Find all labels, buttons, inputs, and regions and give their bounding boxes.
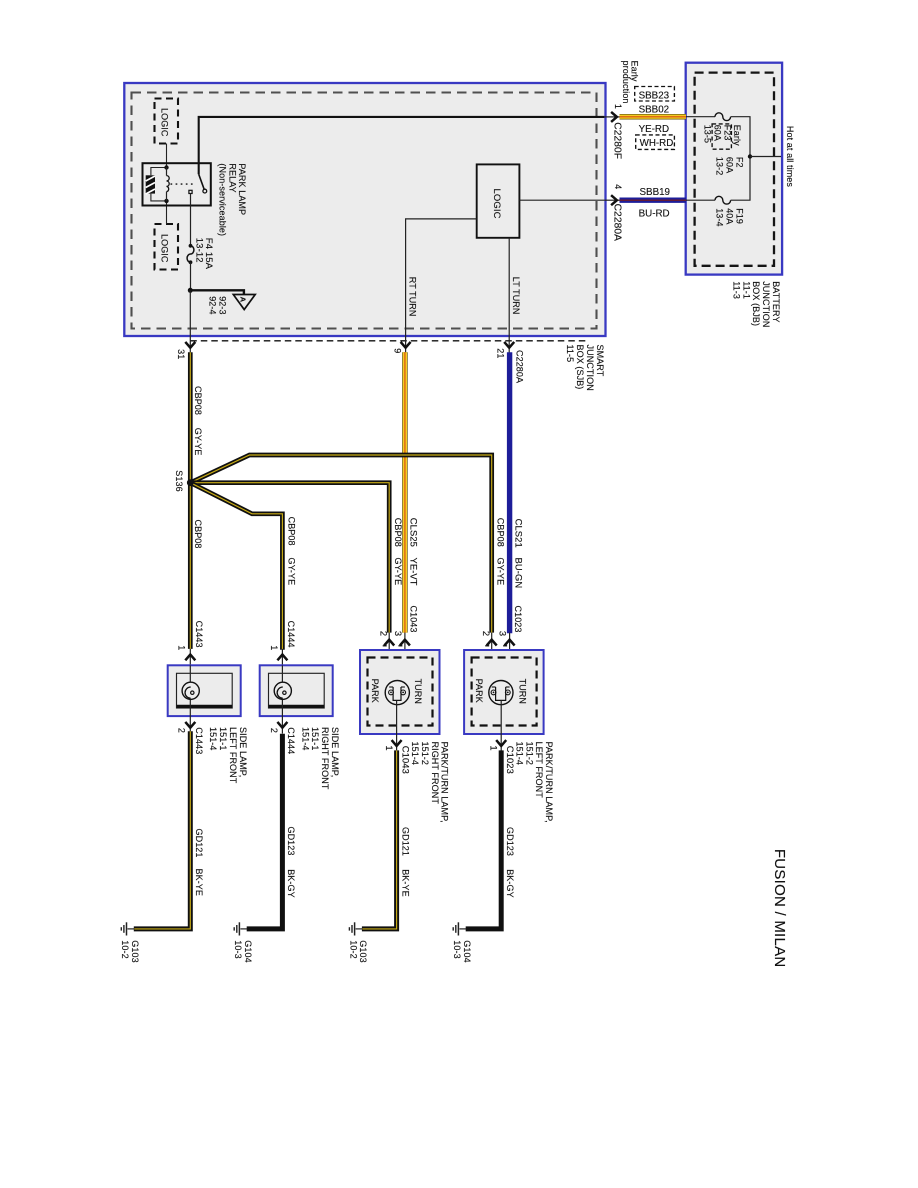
- F23 dashed box: [712, 124, 731, 149]
- wire fuse outputs to common: [731, 117, 750, 201]
- connector C1023 pin 1 (bottom): [500, 700, 502, 750]
- svg-text:C1043: C1043: [400, 746, 411, 774]
- svg-text:2: 2: [177, 728, 187, 733]
- svg-text:JUNCTION: JUNCTION: [585, 345, 595, 391]
- svg-text:G104: G104: [462, 940, 472, 962]
- relay pin dots: [164, 165, 168, 169]
- svg-text:SBB02: SBB02: [639, 104, 670, 115]
- svg-text:11-3: 11-3: [731, 281, 741, 299]
- BJB inner dashed border: [695, 73, 774, 266]
- park lamp relay K1 box: [143, 163, 211, 205]
- relay switch arm: [199, 174, 204, 189]
- svg-text:BU-RD: BU-RD: [639, 208, 670, 219]
- label SBB23 (dashed box): [635, 87, 675, 102]
- svg-text:CBP08: CBP08: [193, 520, 203, 549]
- connector C1043 pin 1 (bottom): [396, 700, 398, 750]
- relay armature dotted link: [171, 183, 197, 185]
- connector C2280A dashed line: [190, 340, 589, 342]
- lamp internal wire: [281, 665, 283, 733]
- svg-text:G103: G103: [130, 940, 140, 962]
- svg-text:151-4: 151-4: [300, 727, 310, 751]
- svg-text:WH-RD: WH-RD: [640, 138, 674, 149]
- wire RT TURN: [406, 219, 477, 336]
- svg-text:G104: G104: [243, 940, 253, 962]
- wire LT TURN: [508, 238, 510, 336]
- park/turn lamp box: [464, 650, 543, 734]
- svg-text:C1443: C1443: [194, 621, 204, 648]
- svg-text:4: 4: [613, 184, 623, 189]
- park/turn lamp box: [360, 650, 440, 734]
- svg-text:2: 2: [378, 631, 389, 636]
- connector C2280A pin 4 arrow: [604, 199, 619, 201]
- svg-text:3: 3: [498, 631, 509, 636]
- svg-text:1: 1: [613, 104, 623, 109]
- fuse F4 15A: [189, 244, 193, 248]
- svg-text:151-2: 151-2: [420, 742, 430, 766]
- svg-text:GY-YE: GY-YE: [393, 558, 403, 586]
- svg-text:GD121: GD121: [194, 829, 204, 858]
- svg-text:10-2: 10-2: [120, 940, 130, 958]
- svg-text:1: 1: [269, 645, 279, 650]
- logic module U1: [477, 164, 520, 237]
- ground symbol: [354, 922, 356, 935]
- svg-text:SMART: SMART: [595, 345, 605, 377]
- svg-text:RIGHT FRONT: RIGHT FRONT: [320, 727, 330, 790]
- svg-text:SIDE LAMP,: SIDE LAMP,: [330, 727, 340, 777]
- svg-text:92-3: 92-3: [218, 296, 228, 314]
- ground wire: [247, 734, 283, 929]
- relay coil inductor: [166, 168, 168, 176]
- splice branch to park/turn right front (C1043 pin2): [190, 483, 389, 633]
- svg-text:PARK LAMP: PARK LAMP: [237, 163, 247, 215]
- svg-text:LEFT FRONT: LEFT FRONT: [534, 742, 544, 799]
- SJB inner dashed border: [132, 93, 597, 329]
- wire: fuse F4 to junction: [190, 262, 192, 290]
- splice S136: [187, 479, 194, 486]
- svg-text:BOX (BJB): BOX (BJB): [751, 281, 761, 326]
- svg-text:RT TURN: RT TURN: [408, 277, 418, 317]
- junction node: [188, 288, 193, 293]
- connector C1443 pin 2 (bottom): [185, 722, 195, 728]
- svg-text:BK-GY: BK-GY: [505, 869, 515, 898]
- svg-text:C1444: C1444: [286, 621, 296, 648]
- splice branch to park/turn left front (C1023 pin2): [190, 455, 491, 633]
- svg-text:C2280F: C2280F: [611, 122, 622, 159]
- svg-text:RELAY: RELAY: [227, 163, 237, 192]
- wire: relay contact down to fuse F4: [190, 194, 192, 245]
- wire logic1 to relay coil: [166, 144, 168, 168]
- wire: relay common up to top rail, rail to C2280F exit: [199, 117, 605, 174]
- svg-text:151-4: 151-4: [410, 742, 420, 766]
- svg-text:BU-GN: BU-GN: [514, 558, 525, 589]
- svg-text:10-3: 10-3: [452, 940, 462, 958]
- wire SBB19 BU-RD: [620, 197, 687, 202]
- side lamp box: [168, 665, 241, 716]
- svg-text:FUSION / MILAN: FUSION / MILAN: [771, 849, 788, 968]
- svg-text:TURN: TURN: [517, 679, 527, 704]
- bulb: [274, 682, 291, 699]
- svg-text:GY-YE: GY-YE: [286, 558, 296, 586]
- wire logic to C2280A exit: [519, 199, 604, 201]
- svg-text:2: 2: [269, 728, 279, 733]
- svg-text:BK-YE: BK-YE: [194, 869, 204, 897]
- BJB feed wire row 2: [686, 199, 715, 201]
- svg-text:GD123: GD123: [505, 827, 515, 856]
- svg-text:Hot at all times: Hot at all times: [785, 126, 795, 188]
- svg-text:151-1: 151-1: [218, 727, 228, 751]
- ground symbol: [126, 922, 128, 935]
- logic block 2 (dashed): [155, 224, 179, 270]
- svg-text:A: A: [239, 297, 248, 303]
- logic block 1 (dashed): [155, 99, 179, 144]
- svg-text:LOGIC: LOGIC: [160, 234, 170, 263]
- pin 9 exit: [405, 336, 407, 353]
- svg-text:1: 1: [384, 745, 395, 750]
- svg-text:CLS25: CLS25: [409, 518, 420, 547]
- svg-text:TURN: TURN: [413, 679, 423, 704]
- ground symbol: [238, 922, 240, 935]
- smart junction box SJB outline: [124, 83, 605, 336]
- svg-text:C2280A: C2280A: [514, 350, 524, 383]
- ground wire: [134, 731, 191, 929]
- svg-text:CLS21: CLS21: [514, 519, 525, 548]
- lamp internal wire: [189, 665, 191, 733]
- fuse F23 60A (early): [715, 113, 731, 121]
- svg-text:GD123: GD123: [286, 827, 296, 856]
- fuse F19 40A: [715, 196, 731, 204]
- svg-text:SIDE LAMP,: SIDE LAMP,: [238, 727, 248, 777]
- relay switch fixed contact: [189, 190, 192, 193]
- svg-text:C1043: C1043: [409, 606, 419, 633]
- svg-text:151-4: 151-4: [208, 727, 218, 751]
- wire to ground triangle A: [190, 290, 244, 294]
- wire CLS25 YE-VT from pin9 to C1043: [402, 352, 408, 632]
- wire CBP08 GY-YE from pin31 to C1443: [188, 352, 193, 649]
- svg-text:C1443: C1443: [194, 727, 204, 754]
- wire SBB02 YE-RD: [620, 114, 687, 120]
- label WH-RD (dashed box): [636, 135, 675, 150]
- svg-text:CBP08: CBP08: [193, 386, 203, 415]
- svg-text:GY-YE: GY-YE: [495, 558, 505, 586]
- svg-text:151-1: 151-1: [310, 727, 320, 751]
- wire CLS21 BU-GN from pin21 to C1023: [507, 352, 512, 633]
- svg-text:GD121: GD121: [400, 827, 410, 856]
- svg-text:S136: S136: [174, 470, 184, 491]
- hot at all times feed node: [748, 154, 752, 158]
- connector C1444 pin 2 (bottom): [277, 722, 287, 728]
- svg-text:LT TURN: LT TURN: [511, 277, 521, 315]
- svg-text:11-5: 11-5: [565, 345, 575, 363]
- svg-text:40A: 40A: [724, 208, 734, 224]
- splice branch to side lamp right front (C1444): [190, 483, 282, 650]
- ground wire: [466, 750, 502, 929]
- svg-text:151-2: 151-2: [524, 742, 534, 766]
- svg-text:2: 2: [481, 631, 492, 636]
- svg-text:CBP08: CBP08: [495, 518, 505, 547]
- svg-text:13-5: 13-5: [703, 125, 713, 143]
- ground wire: [362, 750, 397, 929]
- svg-text:C1023: C1023: [513, 606, 523, 633]
- svg-text:1: 1: [489, 745, 500, 750]
- relay coil bracket wires: [151, 168, 167, 201]
- svg-text:SBB23: SBB23: [639, 90, 670, 101]
- battery junction box BJB outline: [686, 63, 782, 275]
- svg-text:F19: F19: [734, 208, 744, 224]
- svg-text:C2280A: C2280A: [611, 204, 622, 242]
- svg-text:3: 3: [393, 631, 404, 636]
- svg-text:BOX (SJB): BOX (SJB): [575, 345, 585, 390]
- svg-text:21: 21: [496, 348, 506, 358]
- pin 21 exit: [508, 336, 510, 353]
- svg-text:Early: Early: [732, 125, 742, 146]
- svg-text:13-4: 13-4: [715, 208, 725, 226]
- svg-text:(Non-serviceable): (Non-serviceable): [217, 163, 227, 236]
- svg-text:LOGIC: LOGIC: [160, 108, 170, 137]
- wire relay coil to logic2: [166, 201, 168, 224]
- pin 31 exit: [189, 336, 191, 353]
- ground reference triangle A: [233, 295, 255, 310]
- bulb: [182, 682, 199, 699]
- svg-text:F2: F2: [734, 157, 744, 168]
- svg-text:C1023: C1023: [505, 746, 516, 774]
- svg-text:YE-VT: YE-VT: [409, 558, 420, 586]
- svg-text:F23: F23: [722, 125, 732, 141]
- svg-text:LEFT FRONT: LEFT FRONT: [228, 727, 238, 784]
- ground symbol: [457, 922, 459, 935]
- svg-text:PARK: PARK: [474, 679, 484, 703]
- relay coil core (hatched): [146, 175, 155, 193]
- dual filament bulb: [385, 681, 409, 705]
- svg-text:10-3: 10-3: [233, 940, 243, 958]
- svg-text:60A: 60A: [713, 125, 723, 141]
- svg-text:60A: 60A: [724, 157, 734, 173]
- svg-text:JUNCTION: JUNCTION: [761, 281, 771, 327]
- svg-text:92-4: 92-4: [208, 296, 218, 314]
- svg-text:11-1: 11-1: [741, 281, 751, 299]
- svg-text:GY-YE: GY-YE: [193, 428, 203, 456]
- svg-text:BK-YE: BK-YE: [400, 869, 410, 897]
- svg-text:10-2: 10-2: [348, 940, 358, 958]
- svg-text:151-4: 151-4: [514, 742, 524, 766]
- dual filament bulb: [489, 681, 513, 705]
- svg-text:PARK: PARK: [370, 679, 380, 703]
- svg-text:BATTERY: BATTERY: [771, 281, 781, 322]
- BJB feed wire row 1: [686, 116, 715, 118]
- svg-text:YE-RD: YE-RD: [639, 124, 669, 135]
- svg-text:SBB19: SBB19: [640, 187, 671, 198]
- connector C2280F pin 1 arrow: [604, 116, 619, 118]
- svg-text:13-12: 13-12: [193, 238, 204, 263]
- svg-text:BK-GY: BK-GY: [286, 869, 296, 898]
- svg-text:CBP08: CBP08: [286, 517, 296, 546]
- svg-text:production: production: [621, 61, 631, 104]
- svg-text:LOGIC: LOGIC: [491, 189, 502, 219]
- svg-text:31: 31: [176, 349, 186, 359]
- svg-text:PARK/TURN LAMP,: PARK/TURN LAMP,: [544, 742, 554, 823]
- svg-text:G103: G103: [358, 940, 368, 962]
- wire junction to SJB bottom: [189, 290, 191, 336]
- svg-text:13-2: 13-2: [715, 157, 725, 175]
- side lamp box: [260, 665, 333, 716]
- svg-text:1: 1: [177, 645, 187, 650]
- svg-text:PARK/TURN LAMP,: PARK/TURN LAMP,: [440, 742, 450, 823]
- svg-text:CBP08: CBP08: [393, 518, 403, 547]
- svg-text:9: 9: [393, 348, 403, 353]
- svg-text:RIGHT FRONT: RIGHT FRONT: [430, 742, 440, 805]
- svg-text:C1444: C1444: [286, 727, 296, 754]
